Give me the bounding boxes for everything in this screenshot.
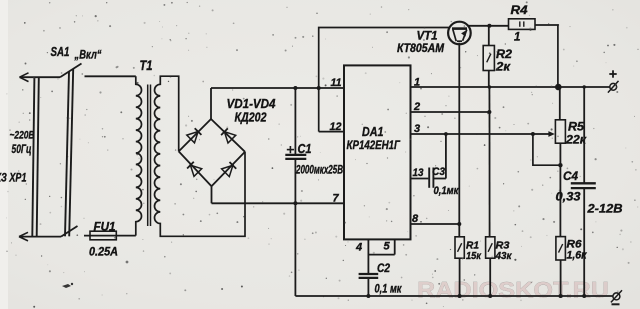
pins 4 5 strap [368, 239, 394, 274]
svg-text:С1: С1 [298, 142, 312, 156]
pin 3 label [414, 123, 420, 135]
VT1 emitter wire down [458, 43, 460, 237]
label VT1 [417, 31, 438, 43]
label SA1 Vkl [51, 45, 102, 62]
wire R5 to R6 [559, 165, 561, 236]
label R2 [496, 49, 513, 61]
label DA1 [362, 125, 384, 139]
wire R5 bottom jog [533, 134, 563, 167]
label 15k [466, 250, 482, 262]
svg-text:2: 2 [413, 101, 420, 113]
label 50Hz [12, 144, 32, 156]
svg-text:2-12В: 2-12В [586, 202, 622, 216]
switch SA1 top blade [60, 64, 82, 78]
resistor R4 [509, 19, 536, 30]
wire mains top with arrow to XP1 [20, 73, 61, 82]
VT1 emitter leg [457, 30, 467, 42]
label 22k [565, 135, 587, 147]
plus sign output [609, 70, 616, 77]
pin 13 label [413, 167, 424, 179]
switch SA1 bottom blade [61, 226, 78, 237]
diode VD1 [187, 128, 202, 143]
svg-text:0,1мк: 0,1мк [434, 185, 460, 197]
label C3 value [434, 185, 460, 197]
resistor R5 trimmer [555, 87, 565, 165]
pin 5 label [384, 241, 391, 253]
node C4 gnd [582, 294, 586, 298]
pin 13 wire [411, 178, 429, 180]
resistor R3 [486, 237, 495, 296]
wire bottom rail [295, 295, 612, 297]
svg-text:КД202: КД202 [235, 111, 267, 125]
wire R2 to R3 [488, 87, 490, 237]
label K XP1 [0, 173, 27, 185]
label R5 [568, 122, 585, 134]
label KT805AM [397, 43, 444, 55]
svg-text:R4: R4 [511, 5, 529, 17]
pin 7 label [333, 193, 340, 205]
pin 1 wire [411, 86, 611, 88]
svg-text:8: 8 [412, 213, 419, 225]
resistor R6 [556, 237, 566, 296]
transformer T1 secondary winding [155, 76, 246, 236]
capacitor C2 [359, 274, 379, 296]
svg-text:SA1: SA1 [51, 45, 70, 59]
label 0,33 [556, 192, 582, 204]
transformer T1 primary winding [136, 76, 142, 235]
plus terminal [608, 81, 619, 93]
svg-text:0,33: 0,33 [556, 192, 582, 204]
label ~220V [10, 130, 35, 142]
capacitor C3 [429, 134, 446, 188]
diode VD4 [222, 162, 237, 177]
svg-text:12: 12 [330, 121, 342, 133]
wire minus rail to pin 7 [212, 202, 345, 204]
wire + rail to pin 11 [211, 87, 344, 89]
svg-text:15к: 15к [466, 250, 482, 262]
svg-text:1: 1 [514, 32, 520, 44]
R5 wiper arrow [533, 131, 555, 137]
svg-text:R5: R5 [568, 122, 585, 134]
node C1 top [293, 86, 297, 90]
label FU1 [94, 222, 116, 234]
svg-text:4: 4 [355, 242, 362, 254]
wire bridge bottom [211, 186, 213, 203]
label KD202 [235, 111, 267, 125]
svg-text:С4: С4 [563, 169, 578, 183]
wire fuse to transformer [84, 235, 136, 237]
bridge diamond [179, 119, 245, 186]
capacitor C4 [571, 87, 596, 296]
pin 2 label [413, 101, 420, 113]
svg-text:R2: R2 [496, 49, 513, 61]
pin 4 label [355, 242, 362, 254]
pin 3 wire [411, 132, 535, 136]
label VD1-VD4 [227, 97, 276, 111]
svg-text:11: 11 [331, 77, 342, 89]
label C1 [298, 142, 312, 156]
svg-text:„Вкл“: „Вкл“ [74, 48, 102, 62]
transistor Q1 VT1 circle [448, 22, 471, 45]
pin 2 wire [411, 110, 492, 114]
diode VD2 [221, 128, 236, 143]
svg-text:КР142ЕН1Г: КР142ЕН1Г [347, 138, 401, 152]
node C1 minus [293, 201, 297, 205]
svg-text:С3: С3 [432, 166, 445, 178]
fuse FU1 [90, 231, 116, 240]
label 2000uF 25V [295, 165, 343, 177]
label C4 [563, 169, 578, 183]
svg-text:~220В: ~220В [10, 130, 35, 142]
svg-text:13: 13 [413, 167, 424, 179]
svg-text:3: 3 [414, 123, 420, 135]
op-amp U1 DA1 box [344, 65, 411, 239]
label R4 value 1 [514, 32, 520, 44]
label 2-12V [586, 202, 622, 216]
pin 1 label [414, 77, 420, 89]
svg-text:RADIOSKOT.RU: RADIOSKOT.RU [417, 278, 609, 303]
svg-text:43к: 43к [495, 250, 513, 262]
node R3 gnd [488, 294, 492, 298]
label C2 value [375, 284, 403, 296]
transformer T1 core [148, 85, 151, 227]
pin 8 wire [411, 222, 462, 226]
pin 8 label [412, 213, 419, 225]
wire bridge top to + rail [210, 88, 212, 119]
svg-text:С2: С2 [377, 263, 391, 275]
label R3 [496, 240, 510, 252]
svg-text:1: 1 [414, 77, 420, 89]
VT1 base bar [452, 27, 467, 30]
svg-text:КТ805АМ: КТ805АМ [397, 43, 444, 55]
resistor R2 [483, 26, 494, 87]
svg-text:7: 7 [333, 193, 340, 205]
node R6 gnd [559, 294, 563, 298]
wire R4 right [535, 25, 558, 87]
svg-text:50Гц: 50Гц [12, 144, 32, 156]
svg-text:2000мкх25В: 2000мкх25В [295, 165, 343, 177]
diode VD3 [187, 162, 202, 177]
VT1 collector leg [453, 30, 456, 42]
svg-text:0.25А: 0.25А [89, 247, 118, 259]
svg-text:0,1 мк: 0,1 мк [375, 284, 403, 296]
svg-text:Т1: Т1 [140, 58, 153, 73]
svg-text:1,6к: 1,6к [567, 250, 588, 262]
wire switch to transformer primary [85, 75, 136, 77]
svg-text:VT1: VT1 [417, 31, 438, 43]
svg-text:DA1: DA1 [362, 125, 384, 139]
svg-text:FU1: FU1 [94, 222, 116, 234]
label 0.25A [89, 247, 118, 259]
wire VT1 base from rail [319, 28, 450, 132]
plug XP1 prong 1 [32, 77, 39, 236]
label R1 [466, 240, 479, 252]
wire pin 12 [319, 131, 344, 133]
node C2 gnd [366, 294, 370, 298]
VT1 collector wire right [468, 24, 508, 28]
minus terminal [611, 290, 622, 304]
svg-text:VD1-VD4: VD1-VD4 [227, 97, 276, 111]
label T1 [140, 58, 153, 73]
C1 plus sign [287, 146, 294, 153]
pin 11 label [331, 77, 342, 89]
svg-text:КЗ ХР1: КЗ ХР1 [0, 173, 27, 185]
node VT1 base branch [317, 86, 321, 90]
label R4 [511, 5, 529, 17]
capacitor C1 [285, 88, 306, 296]
node C4 top [583, 85, 586, 88]
node R1 gnd [458, 294, 462, 298]
label 43k [495, 250, 513, 262]
pin 12 label [330, 121, 342, 133]
label KR142EN1G [347, 138, 401, 152]
resistor R1 [455, 237, 464, 296]
svg-text:2к: 2к [495, 62, 511, 74]
label 1,6k [567, 250, 588, 262]
label C2 [377, 263, 391, 275]
label 2k [495, 62, 511, 74]
node output plus junction [555, 84, 562, 91]
wire mains bottom with arrow [19, 232, 61, 241]
svg-text:5: 5 [384, 241, 391, 253]
plug XP1 prong 2 [65, 69, 73, 237]
label R6 [567, 239, 583, 251]
label C3 [432, 166, 445, 178]
node R2 pin1 [488, 85, 492, 89]
